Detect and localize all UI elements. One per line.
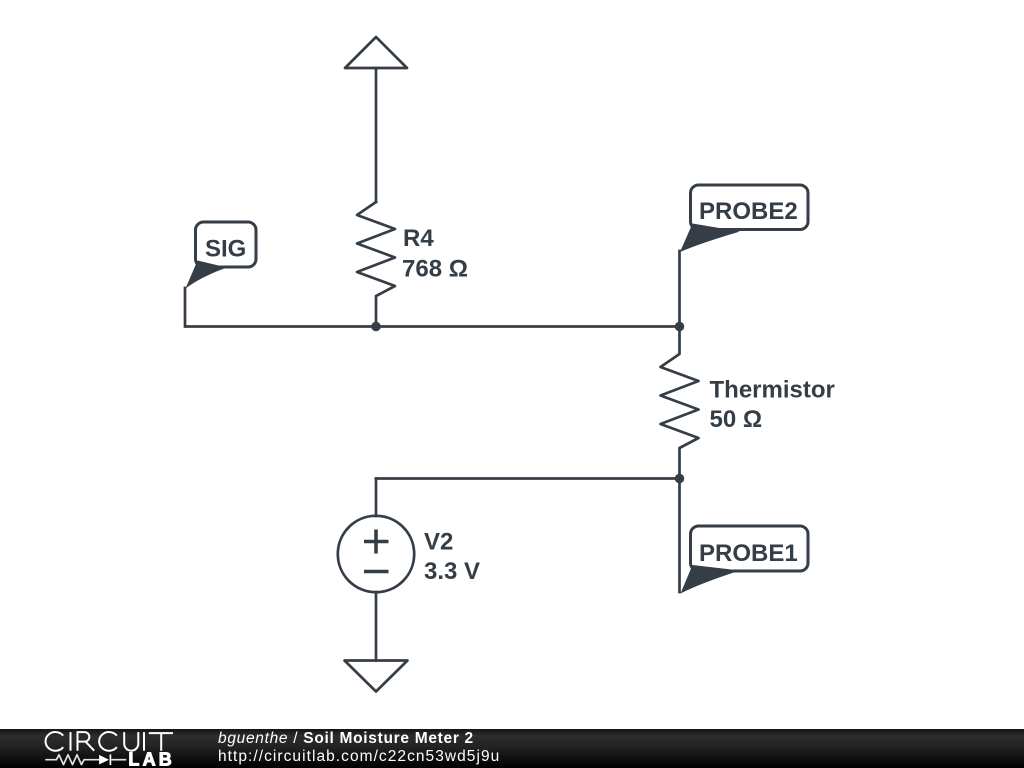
svg-text:50 Ω: 50 Ω — [710, 406, 763, 433]
svg-text:LAB: LAB — [128, 749, 175, 768]
svg-text:R4: R4 — [403, 225, 434, 252]
svg-text:PROBE1: PROBE1 — [699, 540, 798, 567]
svg-text:768 Ω: 768 Ω — [402, 256, 468, 283]
svg-text:Thermistor: Thermistor — [710, 377, 835, 404]
svg-text:SIG: SIG — [205, 236, 246, 263]
svg-text:3.3 V: 3.3 V — [424, 558, 480, 585]
svg-text:PROBE2: PROBE2 — [699, 198, 798, 225]
svg-text:V2: V2 — [424, 529, 453, 556]
